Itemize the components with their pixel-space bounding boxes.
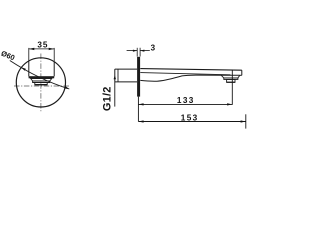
svg-text:35: 35 [37,41,48,50]
svg-text:153: 153 [181,114,199,123]
svg-text:133: 133 [177,96,195,105]
svg-text:3: 3 [151,43,156,52]
svg-text:Ø60: Ø60 [0,49,16,63]
svg-text:G1/2: G1/2 [102,86,114,111]
